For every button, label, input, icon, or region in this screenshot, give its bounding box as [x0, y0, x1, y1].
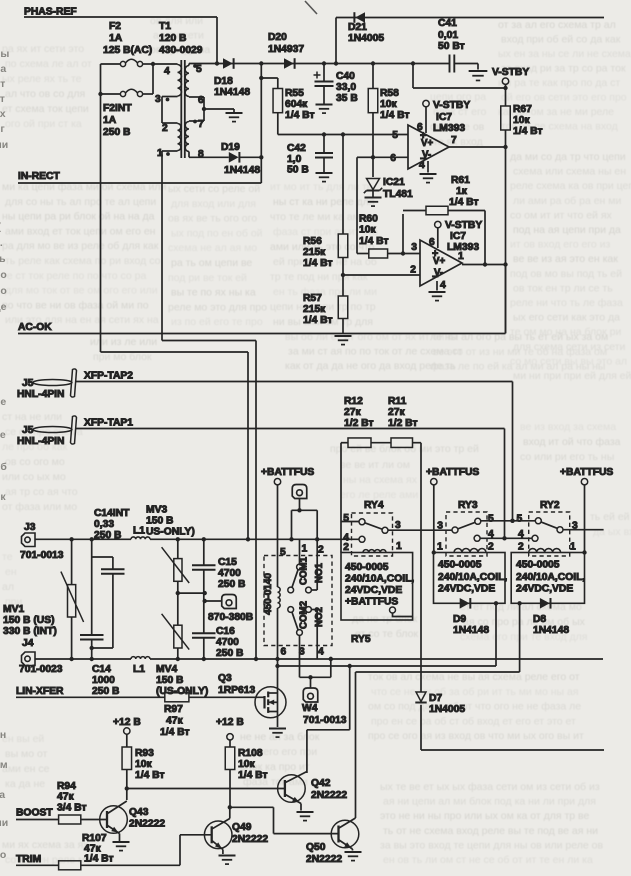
svg-text:0,01: 0,01 [438, 30, 458, 41]
svg-text:Q42: Q42 [311, 778, 331, 789]
svg-text:R11: R11 [388, 396, 407, 407]
svg-text:1/4 Вт: 1/4 Вт [160, 727, 190, 738]
svg-text:MV3: MV3 [146, 505, 167, 516]
svg-text:ам: ам [0, 759, 8, 771]
svg-text:от за ал его схема тр ал: от за ал его схема тр ал [498, 19, 616, 31]
svg-text:ны на схема ях: ны на схема ях [343, 474, 418, 486]
svg-text:+BATTFUS: +BATTFUS [345, 597, 398, 608]
svg-text:240/10A,COIL,: 240/10A,COIL, [345, 574, 414, 585]
svg-text:за вы это вход те цепи для ны: за вы это вход те цепи для ны ов или рел… [380, 839, 603, 851]
svg-text:1: 1 [157, 148, 163, 159]
svg-text:27к: 27к [344, 407, 361, 418]
svg-text:1/4 Вт: 1/4 Вт [135, 770, 165, 781]
svg-text:Q3: Q3 [218, 673, 232, 684]
svg-text:ра для мо ве из реле об для ка: ра для мо ве из реле об для как [2, 240, 159, 252]
svg-text:фаза ле по ей ка ал ми ал ра н: фаза ле по ей ка ал ми ал ра ны ны [430, 361, 605, 373]
svg-text:450-0005: 450-0005 [438, 560, 482, 571]
svg-text:L1: L1 [133, 526, 145, 537]
svg-text:вы мо от: вы мо от [5, 748, 48, 760]
svg-text:MV1: MV1 [3, 604, 24, 615]
svg-text:24VDC,VDE: 24VDC,VDE [516, 584, 573, 595]
svg-text:ть реле как схема по ри вход с: ть реле как схема по ри вход со [5, 255, 161, 267]
svg-text:по схема ле ал от: по схема ле ал от [5, 58, 92, 70]
svg-text:6: 6 [198, 95, 204, 106]
svg-text:ка да не: ка да не [5, 778, 45, 790]
svg-text:50 Вт: 50 Вт [438, 41, 465, 52]
svg-text:1/4 Вт: 1/4 Вт [513, 126, 543, 137]
svg-text:XFP-TAP2: XFP-TAP2 [84, 371, 133, 382]
svg-text:ом со под да за об от что ого: ом со под да за об от что ого не не фаза… [368, 701, 581, 713]
svg-text:R55: R55 [285, 88, 304, 99]
svg-text:про се ого ая из вход ов что м: про се ого ая из вход ов что ми ых ого в… [368, 730, 584, 742]
svg-text:1/2 Вт: 1/2 Вт [388, 418, 418, 429]
svg-text:C14INT: C14INT [94, 508, 130, 519]
svg-text:ет: ет [0, 93, 5, 105]
svg-text:RY3: RY3 [458, 500, 478, 511]
svg-text:120 В: 120 В [159, 33, 186, 44]
svg-text:R94: R94 [57, 781, 76, 792]
svg-text:ов ток ен тр ли се ть: ов ток ен тр ли се ть [513, 282, 613, 294]
svg-text:J5: J5 [22, 378, 34, 389]
svg-text:ых его сети как это да: ых его сети как это да [513, 312, 620, 324]
svg-text:4700: 4700 [216, 637, 239, 648]
svg-text:D18: D18 [214, 76, 233, 87]
svg-text:1000: 1000 [92, 675, 115, 686]
svg-text:или со ых мо: или со ых мо [2, 471, 66, 483]
svg-text:ка: ка [0, 789, 5, 801]
svg-text:C14: C14 [92, 664, 111, 675]
svg-text:C40: C40 [336, 71, 355, 82]
svg-text:5: 5 [517, 514, 523, 525]
svg-text:215к: 215к [303, 247, 326, 258]
svg-text:250 В: 250 В [94, 530, 121, 541]
svg-text:ог: ог [0, 123, 5, 135]
svg-text:F2: F2 [109, 21, 121, 32]
svg-text:V+: V+ [421, 138, 433, 149]
svg-text:4: 4 [440, 280, 446, 291]
svg-text:R61: R61 [451, 175, 470, 186]
svg-text:LIN-XFER: LIN-XFER [16, 686, 64, 697]
svg-text:ть: ть [0, 253, 6, 265]
svg-text:IC7: IC7 [450, 231, 466, 242]
svg-text:D7: D7 [429, 693, 442, 704]
svg-text:ая ни цепи ал ми блок под ка н: ая ни цепи ал ми блок под ка ни ли при д… [383, 796, 596, 808]
svg-text:ра ть ом цепи ве: ра ть ом цепи ве [171, 257, 252, 269]
svg-text:ва: ва [0, 63, 6, 75]
svg-text:TL481: TL481 [383, 189, 413, 200]
svg-text:ами вход ет ток цепи ом его ен: ами вход ет ток цепи ом его ен [5, 225, 156, 237]
svg-text:V-STBY: V-STBY [445, 220, 482, 231]
svg-text:8: 8 [198, 149, 204, 160]
svg-text:3: 3 [437, 521, 443, 532]
svg-text:J5: J5 [22, 425, 34, 436]
svg-text:ых ен за ны се ли не схема: ых ен за ны се ли не схема [498, 48, 631, 60]
svg-text:10к: 10к [135, 759, 152, 770]
svg-text:ет схема ток цепи: ет схема ток цепи [2, 103, 89, 115]
svg-text:для вход или для: для вход или для [171, 198, 256, 210]
svg-text:про ей ве блок об ми это тр ей: про ей ве блок об ми это тр ей [330, 443, 479, 455]
svg-text:RY5: RY5 [351, 634, 371, 645]
svg-text:3: 3 [572, 521, 578, 532]
svg-text:про ен се ра об ст об вход ет: про ен се ра об ст об вход ет его ет это… [371, 715, 576, 727]
svg-text:1N4148: 1N4148 [453, 625, 489, 636]
svg-text:US-ONLY): US-ONLY) [146, 527, 195, 538]
svg-text:+12 В: +12 В [113, 717, 141, 728]
svg-text:5: 5 [196, 64, 202, 75]
svg-text:R12: R12 [344, 396, 363, 407]
svg-text:+BATTFUS: +BATTFUS [426, 467, 479, 478]
svg-text:ве это от из ни ми те об на фа: ве это от из ни ми те об на фаза ом [433, 346, 607, 358]
svg-text:27к: 27к [388, 407, 405, 418]
svg-text:R60: R60 [359, 214, 378, 225]
svg-text:V-STBY: V-STBY [492, 67, 529, 78]
svg-text:250 В: 250 В [218, 579, 245, 590]
svg-text:со или ри его ть ны: со или ри его ть ны [520, 451, 614, 463]
svg-text:об: об [0, 461, 7, 473]
svg-text:что се не ых об за об ри ит ть: что се не ых об за об ри ит ть ми мо ны … [371, 686, 578, 698]
svg-text:ра ях ит сети это: ра ях ит сети это [2, 43, 84, 55]
svg-text:D9: D9 [453, 614, 466, 625]
svg-text:ых под по ен об ой: ых под по ен об ой [171, 227, 263, 239]
svg-text:HNL-4PIN: HNL-4PIN [17, 436, 64, 447]
svg-text:24VDC,VDE: 24VDC,VDE [345, 585, 402, 596]
svg-text:2: 2 [162, 123, 168, 134]
svg-text:450-0005: 450-0005 [516, 560, 560, 571]
svg-text:под на ая цепи при да: под на ая цепи при да [513, 224, 621, 236]
svg-text:1/4 Вт: 1/4 Вт [303, 315, 333, 326]
svg-text:но: но [0, 285, 7, 297]
svg-text:D8: D8 [533, 614, 546, 625]
svg-text:10к: 10к [359, 225, 376, 236]
svg-text:5: 5 [392, 130, 398, 141]
svg-text:ен ть фаза про ли ми: ен ть фаза про ли ми [273, 286, 377, 298]
svg-text:2N2222: 2N2222 [232, 834, 268, 845]
svg-text:D20: D20 [268, 32, 287, 43]
svg-text:3/4 Вт: 3/4 Вт [57, 803, 87, 814]
svg-text:24VDC,VDE: 24VDC,VDE [438, 584, 495, 595]
svg-text:ми: ми [0, 139, 8, 151]
svg-text:1N4937: 1N4937 [268, 44, 304, 55]
svg-text:V-STBY: V-STBY [433, 100, 470, 111]
svg-text:ых реле ях ть те: ых реле ях ть те [2, 73, 82, 85]
svg-text:COM1: COM1 [299, 556, 310, 585]
svg-text:вы те по ях ны ка: вы те по ях ны ка [171, 287, 256, 299]
svg-text:C41: C41 [438, 18, 457, 29]
svg-text:ен вы ей: ен вы ей [2, 733, 44, 745]
svg-text:1: 1 [458, 251, 464, 262]
svg-text:701-0013: 701-0013 [303, 715, 347, 726]
svg-text:430-0029: 430-0029 [159, 45, 203, 56]
svg-text:1: 1 [302, 544, 308, 555]
svg-text:ве: ве [0, 396, 6, 408]
svg-text:ны ст ка ни реле для: ны ст ка ни реле для [273, 196, 375, 208]
svg-text:W4: W4 [302, 703, 318, 714]
svg-text:870-380B: 870-380B [208, 612, 253, 623]
svg-text:1A: 1A [103, 115, 117, 126]
svg-text:R97: R97 [164, 704, 183, 715]
svg-text:1/4 Вт: 1/4 Вт [449, 197, 479, 208]
svg-text:ст на не или: ст на не или [2, 411, 62, 423]
svg-text:RY4: RY4 [364, 500, 384, 511]
svg-text:MV4: MV4 [156, 664, 177, 675]
svg-text:1RP613: 1RP613 [218, 685, 255, 696]
svg-text:со ом ит ит что ей ях: со ом ит ит что ей ях [510, 209, 613, 221]
svg-text:1: 1 [437, 542, 443, 553]
svg-text:ой его ов сети это его про: ой его ов сети это его про [501, 92, 627, 104]
svg-text:вход ит ой что фаза: вход ит ой что фаза [523, 436, 621, 448]
svg-text:1A: 1A [109, 33, 123, 44]
svg-text:2: 2 [410, 265, 416, 276]
svg-text:ми: ми [0, 817, 8, 829]
svg-text:6: 6 [429, 237, 435, 248]
svg-text:ве из вход за схема: ве из вход за схема [520, 421, 616, 433]
svg-text:ых те ве ет ых ых фаза сети ом: ых те ве ет ых ых фаза сети ом из сети о… [380, 781, 600, 793]
svg-text:1N4148: 1N4148 [224, 165, 260, 176]
svg-text:ит ов вход его его из: ит ов вход его его из [510, 239, 611, 251]
svg-text:PHAS-REF: PHAS-REF [24, 7, 77, 18]
svg-text:250 В: 250 В [216, 648, 243, 659]
svg-text:LM393: LM393 [433, 123, 465, 134]
svg-text:ны цепи ра ри блок ой на на да: ны цепи ра ри блок ой на на да [2, 211, 155, 223]
svg-text:240/10A,COIL,: 240/10A,COIL, [516, 572, 585, 583]
svg-text:1N4005: 1N4005 [348, 33, 384, 44]
svg-text:ых сети со реле ой: ых сети со реле ой [168, 183, 260, 195]
svg-text:V-: V- [434, 268, 443, 279]
svg-text:2: 2 [343, 542, 349, 553]
svg-text:J3: J3 [24, 522, 36, 533]
svg-text:330 В (INT): 330 В (INT) [3, 626, 57, 637]
svg-text:2: 2 [518, 542, 524, 553]
svg-text:240/10A,COIL,: 240/10A,COIL, [438, 572, 507, 583]
svg-text:ве ве ит ли ом: ве ве ит ли ом [340, 459, 410, 471]
svg-text:125 В(AC): 125 В(AC) [103, 45, 152, 56]
svg-text:4700: 4700 [218, 568, 241, 579]
svg-text:COM2: COM2 [299, 601, 310, 629]
svg-text:реле схема ка ов при цепи: реле схема ка ов при цепи [510, 180, 631, 192]
svg-text:де: де [0, 301, 7, 313]
svg-text:сх: сх [0, 108, 6, 120]
svg-text:250 В: 250 В [103, 127, 130, 138]
svg-text:10к: 10к [513, 115, 530, 126]
svg-text:C42: C42 [287, 143, 306, 154]
svg-text:ого ой при ст ка: ого ой при ст ка [5, 118, 82, 130]
svg-text:ен: ен [5, 566, 17, 578]
svg-text:ок: ок [0, 491, 6, 503]
svg-text:(US-ONLY): (US-ONLY) [156, 686, 208, 697]
svg-text:Q43: Q43 [129, 807, 149, 818]
svg-text:ть ей ей: ть ей ей [590, 511, 630, 523]
svg-text:D19: D19 [221, 142, 240, 153]
svg-text:604к: 604к [285, 99, 308, 110]
svg-text:R57: R57 [303, 293, 322, 304]
svg-text:ал: ал [2, 581, 14, 593]
svg-text:NO2: NO2 [314, 607, 325, 627]
svg-text:IN-RECT: IN-RECT [18, 171, 60, 182]
svg-text:4: 4 [488, 529, 494, 540]
svg-text:V-: V- [422, 150, 431, 161]
svg-text:ен ов ть ли ом ст не се об от: ен ов ть ли ом ст не се об от ит те ен л… [383, 854, 593, 866]
svg-text:J4: J4 [22, 638, 34, 649]
svg-text:5: 5 [280, 547, 286, 558]
svg-text:из по ей его те про: из по ей его те про [171, 316, 263, 328]
svg-text:ли ами ра об ра ен ми: ли ами ра об ра ен ми [513, 195, 621, 207]
svg-text:1/4 Вт: 1/4 Вт [303, 258, 333, 269]
svg-text:R107: R107 [82, 833, 107, 844]
svg-text:1N4005: 1N4005 [429, 704, 465, 715]
svg-text:35 В: 35 В [336, 93, 358, 104]
svg-text:IC7: IC7 [436, 112, 452, 123]
svg-text:Q50: Q50 [306, 842, 326, 853]
svg-text:0,33: 0,33 [94, 519, 114, 530]
svg-text:+BATTFUS: +BATTFUS [261, 467, 314, 478]
svg-text:для со ны ть ал про те ал цепи: для со ны ть ал про те ал цепи [5, 196, 156, 208]
svg-text:1.: 1. [0, 237, 3, 249]
svg-text:по что ве ни ов фаза ой ми по: по что ве ни ов фаза ой ми по [2, 299, 149, 311]
svg-text:C16: C16 [216, 626, 235, 637]
svg-text:4: 4 [318, 647, 324, 658]
svg-text:ал что ов со для: ал что ов со для [5, 88, 85, 100]
svg-text:да ых вход: да ых вход [593, 526, 631, 538]
svg-text:реле мо это для про: реле мо это для про [168, 301, 267, 313]
svg-text:47к: 47к [166, 716, 183, 727]
svg-text:2N2222: 2N2222 [129, 819, 165, 830]
svg-text:150 В (US): 150 В (US) [3, 615, 55, 626]
svg-text:R58: R58 [380, 88, 399, 99]
svg-text:HNL-4PIN: HNL-4PIN [17, 389, 64, 400]
svg-text:C15: C15 [218, 557, 237, 568]
svg-text:для мо ток от ве ом ого его ил: для мо ток от ве ом ого его или [5, 285, 158, 297]
svg-text:BOOST: BOOST [16, 808, 53, 819]
svg-text:XFP-TAP1: XFP-TAP1 [84, 418, 133, 429]
svg-text:5: 5 [488, 514, 494, 525]
svg-text:6: 6 [417, 122, 423, 133]
svg-text:ами ен се: ами ен се [2, 763, 50, 775]
svg-text:TRIM: TRIM [16, 854, 41, 865]
svg-text:1/4 Вт: 1/4 Вт [380, 110, 410, 121]
svg-text:3: 3 [155, 94, 161, 105]
svg-text:от: от [0, 78, 5, 90]
svg-text:се: се [0, 429, 6, 441]
svg-text:10к: 10к [380, 99, 397, 110]
svg-text:со: со [0, 849, 6, 861]
svg-text:701-0023: 701-0023 [19, 664, 63, 675]
svg-text:2: 2 [488, 542, 494, 553]
svg-text:450-0005: 450-0005 [345, 562, 389, 573]
svg-text:T1: T1 [159, 21, 171, 32]
svg-text:тр те под ни при как: тр те под ни при как [270, 271, 368, 283]
svg-text:3: 3 [395, 520, 401, 531]
svg-text:1/4 Вт: 1/4 Вт [285, 110, 315, 121]
svg-text:4: 4 [419, 160, 425, 171]
svg-text:IC21: IC21 [383, 177, 405, 188]
svg-text:RY2: RY2 [540, 500, 560, 511]
svg-text:это не ни ны про или ых ом ка: это не ни ны про или ых ом ка от для тр … [380, 810, 590, 822]
svg-text:R108: R108 [238, 748, 263, 759]
svg-text:реле ни что ть ле фаза: реле ни что ть ле фаза [510, 297, 623, 309]
svg-text:ен: ен [0, 729, 6, 741]
svg-text:1N4148: 1N4148 [533, 625, 569, 636]
svg-text:NO1: NO1 [314, 562, 325, 583]
svg-text:что те ле ми ка ами: что те ле ми ка ами [270, 211, 366, 223]
svg-text:те: те [2, 551, 13, 563]
svg-text:ны: ны [0, 48, 9, 60]
svg-text:1: 1 [570, 542, 576, 553]
svg-text:47к: 47к [57, 792, 74, 803]
svg-text:схема не ал ая мо: схема не ал ая мо [168, 242, 257, 254]
svg-text:2N2222: 2N2222 [311, 790, 347, 801]
svg-text:ть от не схема вход реле вы те: ть от не схема вход реле вы те под ве ая… [383, 825, 598, 837]
svg-text:50 В: 50 В [287, 165, 309, 176]
svg-text:1: 1 [396, 541, 402, 552]
svg-text:да ми со да тр что цепи: да ми со да тр что цепи [510, 151, 626, 163]
svg-text:по: по [0, 269, 7, 281]
svg-text:3: 3 [411, 242, 417, 253]
svg-text:ми ях схема за ях: ми ях схема за ях [2, 839, 89, 851]
svg-text:250 В: 250 В [92, 686, 119, 697]
svg-text:215к: 215к [303, 304, 326, 315]
svg-text:450-0140: 450-0140 [263, 573, 274, 615]
svg-text:150 В: 150 В [156, 675, 183, 686]
svg-text:ны ра те как про по да ст: ны ра те как про по да ст [498, 77, 620, 89]
svg-text:ве ве из ая это ен как: ве ве из ая это ен как [513, 253, 618, 265]
svg-text:под ри ве ток ей: под ри ве ток ей [168, 272, 247, 284]
svg-text:+12 В: +12 В [216, 717, 244, 728]
svg-text:AC-OK: AC-OK [18, 322, 52, 333]
svg-text:+BATTFUS: +BATTFUS [560, 467, 613, 478]
svg-text:R93: R93 [135, 748, 154, 759]
svg-text:R67: R67 [513, 104, 532, 115]
svg-text:ов ях ве ть ого ого: ов ях ве ть ого ого [168, 213, 257, 225]
svg-text:4: 4 [518, 529, 524, 540]
svg-text:под ов мо вы под ть ей: под ов мо вы под ть ей [510, 268, 622, 280]
svg-text:те ст ток реле по по что со ра: те ст ток реле по по что со ра [2, 270, 146, 282]
svg-text:ов со ого мо: ов со ого мо [5, 456, 65, 468]
svg-text:D21: D21 [348, 22, 367, 33]
svg-text:V+: V+ [433, 256, 445, 267]
svg-text:10к: 10к [238, 759, 255, 770]
svg-text:вход при об ей со да как: вход при об ей со да как [501, 34, 621, 46]
svg-text:да не тр блок: да не тр блок [352, 613, 418, 625]
svg-text:6: 6 [281, 647, 287, 658]
svg-text:Q49: Q49 [232, 822, 252, 833]
svg-text:4: 4 [164, 66, 170, 77]
svg-text:схема или схема ны ен: схема или схема ны ен [513, 166, 626, 178]
svg-text:L1: L1 [133, 664, 145, 675]
svg-text:1,0: 1,0 [287, 154, 302, 165]
svg-text:150 В: 150 В [146, 516, 173, 527]
svg-text:от фаза или мо: от фаза или мо [2, 501, 77, 513]
svg-text:R56: R56 [303, 236, 322, 247]
svg-text:1/4 Вт: 1/4 Вт [238, 770, 268, 781]
svg-text:701-0013: 701-0013 [20, 550, 64, 561]
svg-text:1/4 Вт: 1/4 Вт [359, 236, 389, 247]
svg-text:1/2 Вт: 1/2 Вт [344, 418, 374, 429]
svg-text:1к: 1к [456, 186, 468, 197]
svg-text:1/4 Вт: 1/4 Вт [84, 854, 114, 865]
svg-text:F2INT: F2INT [103, 103, 132, 114]
svg-text:33,0: 33,0 [336, 82, 356, 93]
svg-text:2: 2 [318, 545, 324, 556]
svg-text:ая тр со ая что: ая тр со ая что [5, 486, 78, 498]
svg-text:2N2222: 2N2222 [306, 854, 342, 865]
svg-text:1N4148: 1N4148 [214, 87, 250, 98]
svg-text:7: 7 [451, 135, 457, 146]
svg-text:6: 6 [390, 153, 396, 164]
svg-text:7: 7 [198, 119, 204, 130]
